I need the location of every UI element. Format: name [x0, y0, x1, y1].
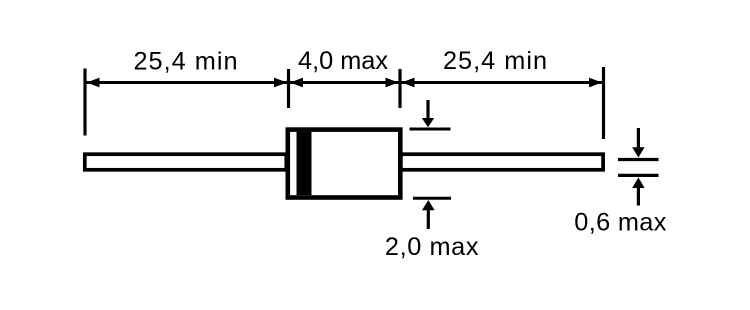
svg-text:25,4 min: 25,4 min	[133, 48, 238, 76]
arrowhead at body-right pointing right	[386, 78, 399, 88]
down arrowhead to body top	[422, 118, 434, 127]
up arrow shaft from lead diameter	[637, 187, 640, 206]
down arrow shaft to lead diameter	[637, 128, 640, 148]
diode body	[288, 130, 401, 198]
up arrowhead from lead diameter	[632, 177, 644, 188]
svg-text:4,0 max: 4,0 max	[298, 47, 388, 75]
arrowhead left end pointing left	[87, 78, 100, 88]
extension line far left	[83, 69, 86, 136]
arrowhead at body-left pointing right	[274, 78, 287, 88]
down arrow shaft to body top	[426, 100, 429, 120]
lead right	[401, 154, 603, 170]
arrowhead right end pointing right	[589, 78, 602, 88]
body-top extension line for 2,0 max	[410, 128, 451, 131]
lead left	[85, 154, 286, 170]
up arrow shaft from body bottom	[427, 210, 430, 230]
top tick for 0,6 max	[618, 158, 659, 161]
arrowhead at body-left pointing left	[290, 78, 303, 88]
svg-text:2,0 max: 2,0 max	[385, 233, 479, 261]
cathode band	[297, 132, 312, 195]
bottom tick for 0,6 max	[618, 174, 659, 177]
down arrowhead to lead diameter	[632, 147, 644, 157]
extension line body-left	[287, 69, 290, 108]
dimension line (horizontal)	[85, 81, 603, 84]
arrowhead at body-right pointing left	[402, 78, 415, 88]
svg-text:0,6 max: 0,6 max	[574, 209, 666, 237]
extension line body-right	[398, 69, 401, 108]
extension line far right	[602, 67, 605, 139]
up arrowhead to body bottom	[422, 200, 435, 210]
svg-text:25,4 min: 25,4 min	[443, 47, 548, 75]
body-bottom extension line for 2,0 max	[413, 197, 451, 200]
